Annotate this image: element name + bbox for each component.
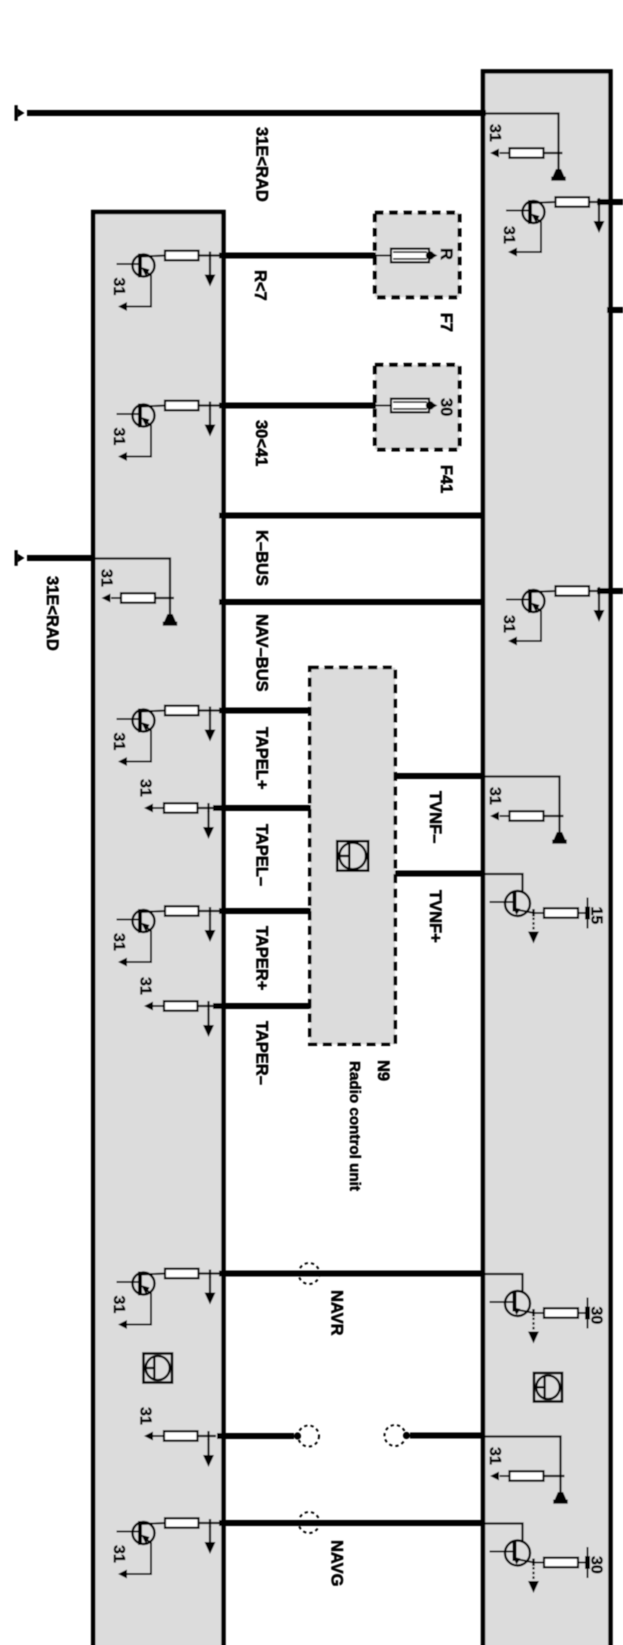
ground symbol terminal 31 (right panel 31 shunt for shield) bbox=[559, 1476, 561, 1494]
ground symbol terminal 31 (left panel 31 shunt for 31E<RAD) bbox=[169, 598, 171, 616]
resistor (shield row) bbox=[164, 1431, 198, 1441]
svg-text:TVNF+: TVNF+ bbox=[426, 890, 444, 943]
resistor (NAVG row) bbox=[165, 1518, 199, 1528]
resistor (right panel 31 shunt for TVNF-) bbox=[510, 811, 544, 821]
arrow to ground (NAVR row right) bbox=[532, 1318, 534, 1336]
svg-text:R: R bbox=[437, 248, 455, 260]
junction (right panel top) bbox=[589, 201, 599, 203]
shield splice marker (NAVR) bbox=[299, 1263, 320, 1284]
svg-text:31: 31 bbox=[110, 1296, 127, 1314]
wire TVNF+ bbox=[395, 871, 484, 877]
wire NAVR bbox=[219, 1271, 484, 1277]
junction (TAPER- row) bbox=[198, 1005, 217, 1007]
svg-text:30: 30 bbox=[588, 1307, 605, 1325]
svg-text:31: 31 bbox=[98, 569, 115, 587]
ground symbol terminal 31 (right panel 31 shunt for TVNF-) bbox=[558, 816, 560, 834]
svg-text:NAV–BUS: NAV–BUS bbox=[253, 614, 271, 692]
svg-text:31E<RAD: 31E<RAD bbox=[253, 127, 271, 202]
wire stub to page edge (right mid) bbox=[607, 307, 623, 313]
wire K-BUS bbox=[219, 513, 484, 519]
transistor symbol (TVNF+ row) bbox=[505, 891, 530, 916]
arrow to ground (TAPER+ row) bbox=[209, 914, 211, 934]
arrow to ground (shield row) bbox=[207, 1439, 209, 1459]
feed wire (left panel 31 shunt for 31E<RAD) bbox=[95, 559, 170, 599]
transistor symbol (R<7 row) bbox=[117, 263, 139, 265]
emitter lead to terminal 31 (NAVR row) bbox=[126, 1291, 151, 1325]
junction and wire stub (R<7 row) bbox=[199, 254, 223, 256]
svg-text:31: 31 bbox=[486, 1447, 503, 1465]
arrow to ground (TAPEL+ row) bbox=[209, 714, 211, 734]
svg-text:F41: F41 bbox=[437, 465, 455, 493]
terminal 30 bar (NAVG row right) bbox=[587, 1547, 589, 1578]
resistor (left panel 31 shunt for 31E<RAD) bbox=[121, 593, 155, 603]
junction and wire stub (TAPEL+ row) bbox=[199, 709, 223, 711]
wire NAV-BUS bbox=[219, 599, 484, 605]
svg-text:TAPER+: TAPER+ bbox=[253, 926, 271, 990]
svg-text:F7: F7 bbox=[437, 313, 455, 332]
resistor (right panel top) bbox=[556, 197, 590, 207]
svg-text:31: 31 bbox=[110, 933, 127, 951]
shield splice marker (shield left) bbox=[298, 1426, 319, 1447]
wire TAPEL+ bbox=[219, 708, 311, 714]
wire stub to page edge (right panel top) bbox=[597, 199, 623, 205]
shield splice marker (NAVG) bbox=[299, 1512, 320, 1533]
terminal 30 bar (NAVR row right) bbox=[587, 1298, 589, 1329]
shield wire end dot (right) bbox=[403, 1432, 410, 1439]
emitter lead to terminal 31 (TAPER+ row) bbox=[126, 928, 151, 962]
wire 30<41 bbox=[219, 403, 376, 409]
terminal 31 arrowhead (right panel 31 shunt for shield) bbox=[490, 1472, 499, 1481]
svg-text:R<7: R<7 bbox=[251, 270, 269, 301]
transistor symbol (TAPEL+ row) bbox=[117, 718, 139, 720]
arrow to ground (TAPER- row) bbox=[207, 1009, 209, 1029]
wire TAPEL- bbox=[213, 805, 311, 811]
emitter lead to terminal 31 (R<7 row) bbox=[126, 273, 151, 307]
resistor (right panel mid) bbox=[556, 586, 590, 596]
svg-text:K–BUS: K–BUS bbox=[253, 530, 271, 586]
svg-text:TAPEL–: TAPEL– bbox=[253, 824, 271, 886]
ground symbol terminal 31 (right panel 31 shunt for 31E<RAD) bbox=[557, 153, 559, 171]
svg-text:31: 31 bbox=[486, 124, 503, 142]
transistor symbol (NAVR row right) bbox=[505, 1291, 530, 1316]
arrow to ground (right panel top) bbox=[598, 205, 600, 225]
wire shield (left segment) bbox=[217, 1433, 294, 1439]
wire NAVG bbox=[219, 1520, 484, 1526]
transistor symbol (NAVG row right) bbox=[505, 1541, 530, 1566]
wire end connector (31E<RAD left) bbox=[15, 550, 18, 566]
svg-text:30: 30 bbox=[588, 1556, 605, 1574]
junction (TVNF+ row) bbox=[532, 909, 534, 917]
resistor (NAVR row right) bbox=[544, 1308, 578, 1318]
terminal 31 arrowhead (left panel 31 shunt for 31E<RAD) bbox=[102, 594, 111, 603]
wire TAPER- bbox=[213, 1003, 311, 1009]
wire TAPER+ bbox=[219, 908, 311, 914]
svg-text:31E<RAD: 31E<RAD bbox=[43, 576, 61, 651]
svg-text:TAPEL+: TAPEL+ bbox=[253, 727, 271, 790]
svg-text:N9: N9 bbox=[374, 1060, 392, 1081]
emitter lead to terminal 31 (NAVG row) bbox=[126, 1540, 151, 1574]
resistor (TVNF+ row) bbox=[544, 908, 578, 918]
control-unit icon (right panel) bbox=[534, 1373, 562, 1402]
svg-text:TAPER–: TAPER– bbox=[253, 1021, 271, 1085]
terminal 31 arrowhead (TAPER- row) bbox=[144, 1002, 153, 1011]
svg-text:31: 31 bbox=[110, 278, 127, 296]
junction and wire stub (NAVR row) bbox=[199, 1272, 223, 1274]
emitter lead to terminal 31 (30<41 row) bbox=[126, 423, 151, 457]
arrow to ground (NAVR row) bbox=[209, 1277, 211, 1297]
svg-text:31: 31 bbox=[486, 787, 503, 805]
fuse element R (F7) bbox=[374, 255, 391, 257]
ground/connector panel (left) bbox=[93, 212, 223, 1645]
feed wire (NAVG row right) bbox=[485, 1524, 523, 1543]
resistor (R<7 row) bbox=[165, 251, 199, 261]
junction and wire stub (NAVG row) bbox=[199, 1522, 223, 1524]
junction (right panel 31 shunt for shield) bbox=[544, 1475, 565, 1477]
junction (NAVG row right) bbox=[532, 1559, 534, 1567]
junction and wire stub (30<41 row) bbox=[199, 404, 223, 406]
svg-text:31: 31 bbox=[110, 428, 127, 446]
svg-text:31: 31 bbox=[137, 779, 154, 797]
shield splice marker (shield right) bbox=[385, 1425, 406, 1446]
arrow to ground (NAVG row) bbox=[209, 1526, 211, 1546]
control-unit icon (N9) bbox=[337, 841, 368, 871]
junction (right panel mid) bbox=[589, 590, 599, 592]
junction and wire stub (TAPER+ row) bbox=[199, 910, 223, 912]
resistor (right panel 31 shunt for shield) bbox=[510, 1471, 544, 1481]
junction (NAVR row right) bbox=[532, 1309, 534, 1317]
resistor (TAPEL+ row) bbox=[165, 706, 199, 716]
feed wire (TVNF+ row) bbox=[485, 874, 523, 893]
arrow to ground (TVNF+ row) bbox=[532, 918, 534, 936]
svg-text:30<41: 30<41 bbox=[252, 420, 270, 466]
lead to terminal 30 (NAVG row right) bbox=[578, 1562, 586, 1564]
svg-text:30: 30 bbox=[437, 398, 455, 416]
wire shield (right segment) bbox=[410, 1433, 484, 1439]
wire end connector (31E<RAD top) bbox=[15, 105, 18, 121]
feed wire (right panel 31 shunt for TVNF-) bbox=[484, 777, 560, 817]
fuse box F41 bbox=[375, 365, 460, 450]
resistor (NAVR row) bbox=[165, 1269, 199, 1279]
wire 31E<RAD (left) bbox=[27, 555, 95, 561]
terminal 31 arrowhead (TAPEL- row) bbox=[144, 804, 153, 813]
junction (TAPEL- row) bbox=[198, 807, 217, 809]
feed wire (NAVR row right) bbox=[485, 1274, 523, 1293]
junction (right panel 31 shunt for TVNF-) bbox=[544, 815, 564, 817]
svg-text:31: 31 bbox=[500, 226, 517, 244]
svg-text:Radio control unit: Radio control unit bbox=[346, 1061, 363, 1191]
junction (shield row) bbox=[198, 1435, 217, 1437]
feed wire (right panel 31 shunt for shield) bbox=[484, 1437, 561, 1477]
svg-text:31: 31 bbox=[137, 1407, 154, 1425]
junction (right panel 31 shunt for 31E<RAD) bbox=[544, 152, 563, 154]
svg-text:NAVG: NAVG bbox=[328, 1540, 346, 1586]
svg-text:NAVR: NAVR bbox=[328, 1290, 346, 1336]
svg-text:31: 31 bbox=[110, 733, 127, 751]
emitter lead to terminal 31 (right panel mid) bbox=[516, 608, 541, 641]
terminal 15 bar (TVNF+ row) bbox=[587, 898, 589, 929]
terminal 31 arrowhead (right panel 31 shunt for TVNF-) bbox=[490, 812, 499, 821]
fuse box F7 bbox=[375, 213, 460, 298]
resistor (TAPER- row) bbox=[164, 1001, 198, 1011]
transistor symbol (NAVR row) bbox=[117, 1281, 139, 1283]
control unit box N9 bbox=[310, 668, 395, 1045]
transistor symbol (right panel top) bbox=[506, 210, 529, 212]
fuse element 30 (F41) bbox=[374, 405, 391, 407]
arrow to ground (R<7 row) bbox=[209, 259, 211, 279]
terminal 31 arrowhead (right panel 31 shunt for 31E<RAD) bbox=[490, 149, 499, 158]
resistor (30<41 row) bbox=[165, 401, 199, 411]
arrow to ground (right panel mid) bbox=[598, 594, 600, 614]
resistor (TAPEL- row) bbox=[164, 803, 198, 813]
shield wire end dot (left) bbox=[294, 1432, 301, 1439]
resistor (right panel 31 shunt for 31E<RAD) bbox=[510, 148, 544, 158]
lead to terminal 30 (NAVR row right) bbox=[578, 1312, 586, 1314]
wire 31E<RAD (top) bbox=[27, 110, 486, 116]
svg-text:31: 31 bbox=[137, 977, 154, 995]
arrow to ground (NAVG row right) bbox=[532, 1567, 534, 1585]
resistor (NAVG row right) bbox=[544, 1558, 578, 1568]
wire R<7 bbox=[219, 253, 376, 259]
svg-text:15: 15 bbox=[588, 907, 605, 925]
svg-text:31: 31 bbox=[110, 1545, 127, 1563]
emitter lead to terminal 31 (TAPEL+ row) bbox=[126, 728, 151, 762]
arrow to ground (30<41 row) bbox=[209, 409, 211, 429]
transistor symbol (TAPER+ row) bbox=[117, 919, 139, 921]
junction (left panel 31 shunt for 31E<RAD) bbox=[155, 597, 174, 599]
control-unit icon (left panel) bbox=[144, 1354, 173, 1383]
lead to terminal 15 (TVNF+ row) bbox=[578, 912, 586, 914]
wire TVNF- bbox=[395, 773, 484, 779]
transistor symbol (NAVG row) bbox=[117, 1531, 139, 1533]
power/connector panel (right) bbox=[483, 71, 611, 1645]
feed wire (right panel 31 shunt for 31E<RAD) bbox=[484, 114, 559, 154]
emitter lead to terminal 31 (right panel top) bbox=[516, 219, 541, 252]
transistor symbol (right panel mid) bbox=[506, 599, 529, 601]
arrow to ground (TAPEL- row) bbox=[207, 811, 209, 831]
resistor (TAPER+ row) bbox=[165, 906, 199, 916]
terminal 31 arrowhead (shield row) bbox=[144, 1432, 153, 1441]
svg-text:31: 31 bbox=[500, 615, 517, 633]
wire stub to page edge (right panel mid) bbox=[597, 588, 623, 594]
transistor symbol (30<41 row) bbox=[117, 413, 139, 415]
svg-text:TVNF–: TVNF– bbox=[426, 791, 444, 843]
